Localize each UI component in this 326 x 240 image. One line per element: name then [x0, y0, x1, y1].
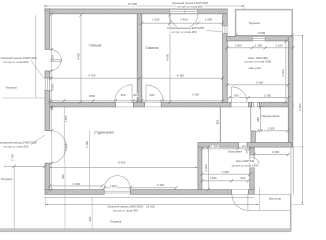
svg-text:1 600: 1 600	[210, 176, 217, 180]
svg-text:10 500: 10 500	[128, 2, 138, 6]
svg-text:1 200: 1 200	[275, 43, 283, 47]
svg-text:200: 200	[133, 93, 138, 97]
svg-text:2 195: 2 195	[85, 141, 89, 148]
svg-text:900: 900	[150, 93, 155, 97]
svg-text:4 400: 4 400	[165, 54, 169, 61]
svg-text:960: 960	[216, 119, 220, 124]
svg-text:отступ от пола 1000: отступ от пола 1000	[245, 60, 272, 64]
svg-text:1 500: 1 500	[205, 17, 213, 21]
svg-text:3 300: 3 300	[256, 81, 264, 85]
svg-text:2 700: 2 700	[11, 154, 15, 161]
svg-text:отступ от пола 250: отступ от пола 250	[171, 30, 197, 34]
svg-text:Сан-узел: Сан-узел	[248, 66, 261, 70]
svg-text:1 000: 1 000	[234, 43, 242, 47]
svg-text:1 300: 1 300	[152, 17, 160, 21]
svg-text:Студия-кухня: Студия-кухня	[94, 131, 114, 135]
svg-text:Прихожая: Прихожая	[228, 150, 242, 154]
svg-text:600: 600	[88, 216, 92, 221]
svg-text:Гардеробная: Гардеробная	[261, 114, 280, 118]
svg-text:2 400: 2 400	[281, 69, 285, 76]
svg-text:1550: 1550	[89, 94, 96, 98]
svg-text:2 000: 2 000	[204, 164, 208, 171]
svg-text:отступ от пола 600: отступ от пола 600	[177, 5, 203, 9]
svg-text:отступ от пола 250: отступ от пола 250	[3, 144, 29, 148]
svg-text:12 900: 12 900	[146, 204, 155, 208]
svg-text:Спальня: Спальня	[89, 43, 102, 47]
svg-text:2 000: 2 000	[222, 170, 229, 174]
svg-text:900: 900	[242, 145, 247, 149]
svg-text:960: 960	[256, 117, 260, 122]
svg-text:2 100: 2 100	[192, 93, 199, 97]
svg-text:1 600: 1 600	[50, 54, 54, 61]
svg-text:1 300: 1 300	[255, 43, 263, 47]
svg-text:1 400: 1 400	[110, 184, 117, 188]
svg-text:1 300: 1 300	[50, 84, 54, 91]
svg-text:8 300: 8 300	[118, 161, 126, 165]
svg-text:Окно 800*400: Окно 800*400	[236, 159, 255, 163]
svg-text:2 000: 2 000	[272, 150, 280, 154]
svg-text:1 400: 1 400	[180, 17, 188, 21]
svg-text:Крыльцо: Крыльцо	[269, 197, 282, 201]
svg-text:Терраса: Терраса	[1, 177, 13, 181]
svg-text:Терраса: Терраса	[110, 220, 122, 224]
svg-text:960: 960	[50, 105, 54, 110]
svg-text:Терраса: Терраса	[5, 85, 17, 89]
svg-text:отступ от пола 600: отступ от пола 600	[3, 60, 29, 64]
svg-text:900: 900	[234, 94, 239, 98]
svg-text:2 400: 2 400	[157, 183, 164, 187]
svg-text:1 600: 1 600	[211, 145, 218, 149]
svg-text:900: 900	[121, 93, 126, 97]
svg-text:2 400: 2 400	[64, 143, 68, 150]
svg-text:отступ от пола 1400: отступ от пола 1400	[232, 163, 259, 167]
svg-text:Спальня: Спальня	[145, 46, 158, 50]
svg-text:1 500: 1 500	[64, 115, 68, 122]
svg-text:9 300: 9 300	[298, 103, 302, 110]
svg-text:4 750: 4 750	[88, 74, 96, 78]
svg-text:отступ от пола 400: отступ от пола 400	[113, 208, 139, 212]
svg-text:2 300: 2 300	[264, 93, 271, 97]
svg-text:900: 900	[241, 176, 246, 180]
svg-text:900: 900	[61, 174, 65, 179]
svg-text:Терраса: Терраса	[248, 21, 260, 25]
svg-text:3 500: 3 500	[258, 31, 266, 35]
svg-text:4 250: 4 250	[177, 73, 185, 77]
svg-text:2 500: 2 500	[268, 126, 276, 130]
svg-text:4 400: 4 400	[76, 53, 80, 60]
svg-text:3 400: 3 400	[73, 182, 81, 186]
